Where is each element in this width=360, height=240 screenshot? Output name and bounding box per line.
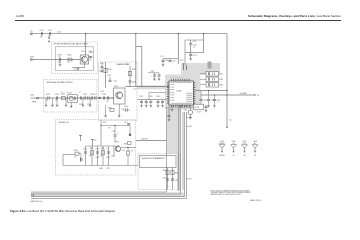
svg-text:A+: A+ <box>31 30 33 33</box>
svg-text:1K: 1K <box>61 91 63 93</box>
svg-text:R213: R213 <box>220 85 224 87</box>
svg-text:R209: R209 <box>193 41 197 43</box>
ground drop 3 in filter <box>56 100 58 104</box>
svg-text:108.96kHz DIGITAL FILTER: 108.96kHz DIGITAL FILTER <box>47 81 73 84</box>
svg-text:C205: C205 <box>89 51 93 53</box>
wire squelch output <box>121 146 136 148</box>
capacitor C277 <box>127 123 130 125</box>
svg-text:C275: C275 <box>107 168 111 170</box>
pad test point <box>129 126 131 135</box>
svg-text:C908: C908 <box>253 141 257 143</box>
wire small box under output channel <box>149 92 166 94</box>
wire squelch vertical 3 <box>97 146 99 166</box>
svg-text:C203: C203 <box>57 55 61 57</box>
svg-text:10K: 10K <box>89 155 91 157</box>
svg-text:C276: C276 <box>112 131 116 133</box>
svg-text:R202: R202 <box>58 62 62 64</box>
capacitor C262 <box>205 105 207 106</box>
ground drop 1 in filter <box>45 98 47 104</box>
svg-text:C222: C222 <box>55 94 59 96</box>
svg-text:.01: .01 <box>49 36 51 38</box>
svg-text:R212: R212 <box>220 79 224 81</box>
svg-text:R203: R203 <box>82 51 86 53</box>
svg-text:C907: C907 <box>243 141 247 143</box>
wire comparator drop 2 <box>172 168 174 190</box>
svg-text:40 39 38 37 36 35 34 33 32: 40 39 38 37 36 35 34 33 32 <box>170 77 184 79</box>
svg-text:C281: C281 <box>163 177 167 179</box>
inner solid box IF processor amplifier <box>56 47 94 71</box>
svg-text:R251: R251 <box>163 170 167 172</box>
svg-text:Y201: Y201 <box>184 110 187 112</box>
svg-text:Figure 4-81. Low Band (29.7-4: Figure 4-81. Low Band (29.7-42/35-50 MHz… <box>10 209 116 213</box>
resistor R251 <box>166 171 169 175</box>
svg-text:TO VOL: TO VOL <box>186 179 192 181</box>
svg-text:(B+): (B+) <box>189 117 193 119</box>
wire emitter to ground rail <box>72 67 85 69</box>
capacitor C282 <box>171 178 174 180</box>
wire row1 feed <box>200 73 206 75</box>
svg-text:C202: C202 <box>48 30 52 32</box>
wire squelch vertical 5 <box>108 146 110 166</box>
ground below C211 <box>190 58 192 59</box>
svg-text:C2: C2 <box>79 91 81 93</box>
capacitor C224 <box>83 96 85 99</box>
capacitor C201 on top rail <box>40 32 42 35</box>
svg-text:IF AMPLIFIER: IF AMPLIFIER <box>117 63 131 66</box>
wire IF input <box>32 59 80 61</box>
wire arrows into IF processor <box>48 35 50 38</box>
svg-text:10K: 10K <box>220 86 222 88</box>
wire top supply rail <box>32 33 227 35</box>
svg-text:FL221: FL221 <box>67 92 72 94</box>
svg-text:R248: R248 <box>103 122 107 124</box>
solid box squelch comparator U202 <box>140 156 177 168</box>
svg-text:.01: .01 <box>58 56 60 58</box>
dark tick components in shaded area <box>183 63 185 70</box>
transistor Q202 <box>114 88 125 104</box>
svg-text:C235: C235 <box>114 80 118 82</box>
arrow squelch control down <box>226 127 228 129</box>
svg-text:455 kHz: 455 kHz <box>197 111 202 113</box>
capacitor C228 interstage <box>102 96 104 99</box>
wire bus line 3 <box>182 112 184 190</box>
wire squelch input <box>63 154 75 156</box>
capacitor C233 <box>129 80 132 82</box>
wire squelch input drop <box>62 155 64 166</box>
resistor R252 <box>171 171 174 175</box>
svg-text:C216: C216 <box>160 56 164 58</box>
svg-text:47K: 47K <box>100 155 102 157</box>
ground drop 4 in filter <box>65 98 67 104</box>
svg-text:12 13 14 15 16 17 18 19 20: 12 13 14 15 16 17 18 19 20 <box>170 108 184 110</box>
svg-text:C234: C234 <box>124 106 128 108</box>
crystal Y201 <box>188 110 192 114</box>
svg-text:SQUELCH: SQUELCH <box>59 122 70 124</box>
svg-text:A+: A+ <box>230 118 232 121</box>
dashed box SQUELCH <box>56 120 136 176</box>
svg-text:C277: C277 <box>124 122 128 124</box>
svg-text:7-8: 7-8 <box>30 193 34 197</box>
wire SQ DET to comparator <box>136 140 167 142</box>
svg-text:R243: R243 <box>101 148 105 150</box>
ceramic filter FL201 <box>194 104 204 110</box>
wire above-IC rung <box>163 58 178 60</box>
capacitor C274 <box>107 151 110 153</box>
svg-text:33K: 33K <box>108 127 110 129</box>
svg-text:L201: L201 <box>58 32 62 34</box>
capacitor C226 <box>90 96 92 99</box>
svg-text:C213: C213 <box>172 61 176 63</box>
dashed box IF AMPLIFIER <box>99 62 138 121</box>
wire squelch vertical 6 <box>113 146 115 157</box>
svg-text:470: 470 <box>67 62 69 64</box>
ground drop 2 in filter <box>52 98 54 104</box>
svg-text:C227: C227 <box>94 94 98 96</box>
wire squelch vertical 1 <box>85 146 87 166</box>
arrow audio out off-page <box>254 94 256 96</box>
wire IF amp output <box>125 86 137 88</box>
svg-text:R242: R242 <box>90 148 94 150</box>
svg-text:C237: C237 <box>133 88 137 90</box>
svg-text:10K: 10K <box>220 81 222 83</box>
svg-text:7-10: 7-10 <box>243 155 246 157</box>
capacitor C223 <box>79 96 81 99</box>
node IF IN terminal <box>31 59 32 60</box>
wire right rail down <box>226 34 228 128</box>
dashed box IF PROCESSOR <box>52 42 98 74</box>
svg-text:U201: U201 <box>176 91 182 93</box>
power feed B+ squelch <box>92 140 94 147</box>
capacitor C245 <box>162 100 164 102</box>
svg-text:R252: R252 <box>175 173 179 175</box>
svg-text:C243: C243 <box>149 96 153 98</box>
resistor R221 <box>61 97 65 100</box>
shaded vertical bus band lower <box>177 154 180 192</box>
resistor R246 <box>128 142 131 145</box>
svg-text:C232: C232 <box>107 75 111 77</box>
capacitor C232 bypass <box>109 77 111 80</box>
wire rung lower <box>185 52 204 54</box>
wire drop at node C <box>203 34 205 53</box>
resistor R232 <box>129 66 131 87</box>
svg-text:R245: R245 <box>100 168 104 170</box>
svg-text:R232: R232 <box>132 69 136 71</box>
resistor-capacitor row 2 <box>206 77 219 82</box>
wire squelch vertical 4 <box>102 146 104 166</box>
svg-text:10K: 10K <box>220 75 222 77</box>
svg-text:150: 150 <box>55 100 57 102</box>
wire bottom bus outer <box>31 198 186 200</box>
wire AGC line <box>138 99 167 101</box>
capacitor C234 <box>125 108 127 111</box>
capacitor C241 <box>141 100 143 102</box>
wire bus line outer <box>185 112 187 199</box>
svg-text:100: 100 <box>106 101 109 103</box>
capacitor C251 <box>200 91 202 100</box>
wire jog to second feed <box>136 46 142 48</box>
capacitor C272 <box>84 151 87 153</box>
ground on emitter rail <box>77 68 79 69</box>
svg-text:7-8: 7-8 <box>254 155 256 157</box>
svg-text:R247: R247 <box>122 150 126 152</box>
capacitor C213 <box>169 59 171 61</box>
wire squelch vertical 2 <box>91 146 93 166</box>
svg-text:C906: C906 <box>232 141 236 143</box>
svg-text:9.1V: 9.1V <box>89 59 92 61</box>
svg-text:Q202: Q202 <box>114 86 118 88</box>
svg-text:SQUELCH COMPARATOR: SQUELCH COMPARATOR <box>142 157 166 160</box>
svg-text:FL201: FL201 <box>195 107 200 109</box>
ground IF amp 1 <box>105 105 107 115</box>
resistor R243 <box>101 151 104 155</box>
svg-text:C201: C201 <box>40 30 44 32</box>
svg-text:C253: C253 <box>217 100 221 102</box>
power feed T2 squelch <box>80 135 82 141</box>
svg-text:R221: R221 <box>61 94 65 96</box>
svg-text:C272: C272 <box>83 148 87 150</box>
capacitor C225 <box>87 96 89 99</box>
wire C214 rung <box>148 72 159 74</box>
wire rung upper <box>185 39 204 41</box>
svg-text:4-108: 4-108 <box>16 14 24 18</box>
capacitor C252 <box>208 91 210 100</box>
capacitor C229 interstage <box>106 96 108 99</box>
resistor R233 <box>110 109 114 112</box>
dashed box 108.96kHz DIGITAL FILTER <box>44 80 98 113</box>
wire recovered audio out <box>201 94 254 96</box>
svg-text:R231: R231 <box>108 69 112 71</box>
svg-text:C273: C273 <box>95 148 99 150</box>
svg-text:R236: R236 <box>101 91 105 93</box>
capacitor C210 <box>190 40 192 43</box>
wire collector feed <box>105 62 107 88</box>
svg-text:C212: C212 <box>165 60 169 62</box>
resistor R201 <box>68 58 72 61</box>
svg-text:C233: C233 <box>132 82 136 84</box>
wire bottom bus line 3 <box>31 195 185 197</box>
capacitor C261 <box>168 114 171 116</box>
node label B+ upper <box>187 116 189 118</box>
svg-text:R246: R246 <box>124 143 128 145</box>
svg-text:.01: .01 <box>193 46 195 48</box>
capacitor C281 <box>166 178 169 180</box>
wire bottom bus line 2 <box>31 193 181 195</box>
capacitor C242 <box>145 100 147 102</box>
capacitor C271 electrolytic <box>80 158 82 162</box>
resistor R231 <box>104 68 107 72</box>
wire bus line 4 <box>184 112 186 196</box>
svg-text:7-8: 7-8 <box>257 95 259 97</box>
wire drop at node B <box>177 34 179 64</box>
svg-text:C211: C211 <box>193 55 197 57</box>
capacitor C222 <box>55 96 57 99</box>
svg-text:C244: C244 <box>156 96 160 98</box>
svg-text:10K: 10K <box>74 156 76 158</box>
svg-text:C206: C206 <box>74 69 77 71</box>
svg-text:C273: C273 <box>95 157 99 159</box>
ground drop 7 in filter <box>89 98 91 104</box>
resistor-capacitor row 3 <box>206 83 219 88</box>
svg-text:SQ DET: SQ DET <box>142 139 148 141</box>
svg-text:C274: C274 <box>106 157 110 159</box>
wire IC bottom drops <box>179 106 181 108</box>
ground IF amp 2 <box>118 104 120 115</box>
capacitor C215 <box>158 74 161 76</box>
svg-text:4.7: 4.7 <box>106 148 108 150</box>
svg-text:7-9: 7-9 <box>232 155 234 157</box>
wire filter to IF amplifier <box>97 97 114 99</box>
svg-text:C905: C905 <box>220 141 224 143</box>
svg-text:C241: C241 <box>140 96 144 98</box>
wire bus line 2 <box>180 108 182 195</box>
pad P1 on interstage wire <box>99 97 100 98</box>
capacitor C202 on top rail <box>48 32 50 35</box>
node A+ supply terminal <box>31 33 32 35</box>
capacitor C221 <box>47 96 49 99</box>
wire drop to IF amp feed <box>135 34 137 87</box>
wire squelch ground rail <box>63 165 138 167</box>
crystal filter FL221 <box>68 95 78 103</box>
wire row3 feed <box>200 84 206 86</box>
wire bus line 1 <box>178 108 180 191</box>
resistor R242 <box>90 151 93 155</box>
shaded band IF amplifier output to IC <box>137 85 165 89</box>
svg-text:R211: R211 <box>220 74 224 76</box>
wire output into IC shaded channel <box>137 86 169 88</box>
wire upper squelch drop <box>100 120 102 146</box>
node label 5V lower <box>187 125 189 127</box>
wire IC bottom stub 1 <box>168 106 170 116</box>
resistor-capacitor row 1 <box>206 72 219 77</box>
ground drop 6 in filter <box>82 98 84 104</box>
capacitor C253 <box>214 95 216 99</box>
wire left leg to IC top <box>184 40 186 65</box>
resistor R241 <box>75 152 79 155</box>
capacitor C212 <box>162 59 164 61</box>
wire IC pin to audio node <box>195 90 227 92</box>
svg-text:R234: R234 <box>100 63 104 65</box>
op-amp U201 IF detector IC with pins <box>169 81 193 105</box>
wire bus wall left <box>166 108 168 193</box>
ground drop 5 in filter <box>70 103 72 105</box>
svg-text:10K: 10K <box>168 186 170 188</box>
capacitor C276 <box>114 126 116 135</box>
wire IC bottom boundary <box>165 107 201 109</box>
svg-text:100K: 100K <box>111 155 114 157</box>
header horizontal rule <box>15 19 341 21</box>
dark grey block above IC <box>208 62 212 69</box>
svg-text:Schematic Diagrams, Overlays,: Schematic Diagrams, Overlays, and Parts … <box>248 14 341 18</box>
svg-text:R233: R233 <box>108 108 112 110</box>
capacitor C203 <box>58 58 60 61</box>
svg-text:C210: C210 <box>193 45 197 47</box>
capacitor C214 <box>153 74 156 76</box>
capacitor C244 <box>157 100 159 102</box>
ground IC bottom <box>171 106 173 109</box>
svg-text:C228: C228 <box>102 94 106 96</box>
resistor R244 <box>127 147 129 151</box>
svg-text:R201: R201 <box>67 55 71 57</box>
svg-text:C221: C221 <box>46 94 50 96</box>
svg-text:C251: C251 <box>203 100 207 102</box>
svg-text:IF PROCESSOR U201 MUTE GATE: IF PROCESSOR U201 MUTE GATE <box>54 43 88 46</box>
shaded vertical bus band upper <box>167 108 180 154</box>
wire comparator drop 1 <box>167 168 169 190</box>
svg-text:(5V): (5V) <box>189 126 193 128</box>
capacitor C205 <box>89 56 91 58</box>
svg-text:R241: R241 <box>74 150 78 152</box>
wire base bias <box>106 97 114 99</box>
shaded bottom bus band <box>31 192 184 197</box>
svg-text:.47: .47 <box>117 133 119 135</box>
capacitor C227 <box>94 96 96 99</box>
capacitor C243 <box>150 100 152 102</box>
wire squelch top rail <box>86 145 120 147</box>
wire upper squelch rung <box>101 125 130 127</box>
svg-text:C231: C231 <box>99 71 103 73</box>
svg-text:C214: C214 <box>151 71 155 73</box>
svg-text:R210: R210 <box>180 60 184 62</box>
transistor Q201 <box>80 55 88 64</box>
ground stub below C203 <box>59 61 61 63</box>
capacitor C211 <box>190 45 192 54</box>
wire row2 feed <box>200 78 206 80</box>
svg-text:C224: C224 <box>83 94 87 96</box>
wire drop to Q201 <box>85 34 87 56</box>
wire filter chain <box>38 97 97 99</box>
shaded bus region around IC U201 <box>165 75 201 110</box>
capacitor C273 <box>96 151 99 153</box>
capacitor C231 <box>101 65 104 67</box>
transistor Q203 <box>115 146 120 151</box>
svg-text:22K: 22K <box>131 150 133 152</box>
svg-text:10K: 10K <box>122 108 124 110</box>
dashed box SQUELCH COMPARATOR <box>138 154 178 190</box>
shaded region above-right of IC U201 <box>181 63 220 75</box>
wire bottom bus line 1 <box>31 191 167 193</box>
svg-text:C282: C282 <box>175 180 179 182</box>
